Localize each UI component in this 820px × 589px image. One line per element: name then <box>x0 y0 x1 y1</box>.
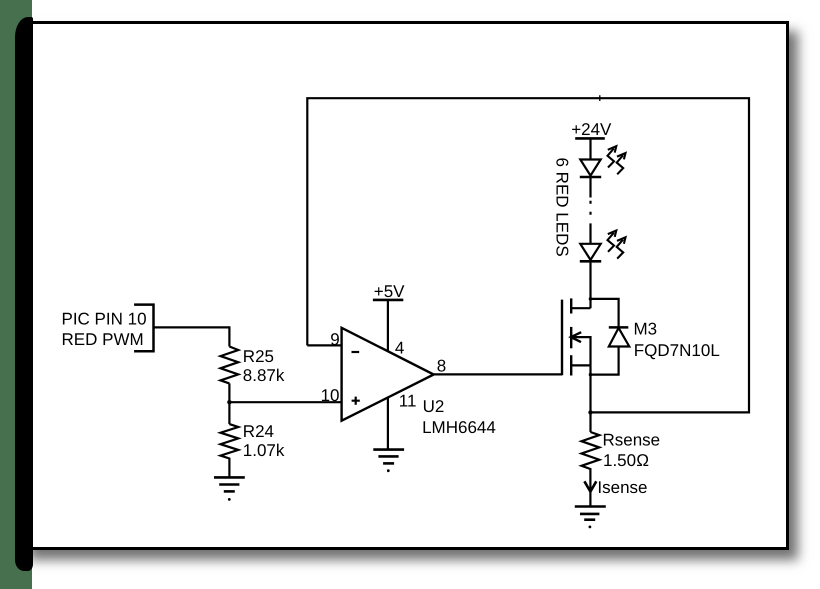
+5V supply <box>374 282 405 301</box>
wire LED2 to MOSFET drain <box>589 261 591 308</box>
LED D1 <box>580 160 600 176</box>
ground (below Rsense) <box>575 507 606 529</box>
svg-text:6 RED LEDS: 6 RED LEDS <box>553 158 572 257</box>
svg-text:4: 4 <box>395 339 404 358</box>
resistor R25 <box>221 347 239 384</box>
svg-text:Isense: Isense <box>597 478 647 497</box>
pin 11 wire <box>387 398 389 450</box>
+24V supply <box>571 120 612 139</box>
svg-text:1.07k: 1.07k <box>243 441 285 460</box>
U2 labels <box>422 397 496 437</box>
tick on feedback wire top <box>599 95 601 101</box>
svg-text:1.50Ω: 1.50Ω <box>603 451 649 470</box>
junction dot at sense node <box>588 410 592 414</box>
svg-text:Rsense: Rsense <box>603 431 661 450</box>
op-amp U2 triangle <box>342 328 434 421</box>
junction dot at diode top <box>589 297 593 301</box>
source connection <box>571 364 590 366</box>
svg-text:LMH6644: LMH6644 <box>422 418 496 437</box>
diode triangle <box>609 328 630 347</box>
node junction dot <box>227 400 231 404</box>
LED D1 light arrows <box>608 146 626 174</box>
input bracket <box>134 305 153 352</box>
wire node to op-amp + input (pin 10) <box>229 401 341 403</box>
Isense current arrow <box>584 481 596 491</box>
drain connection <box>571 307 590 309</box>
transistor M3 (N-MOSFET) <box>562 298 571 375</box>
svg-text:8: 8 <box>437 357 446 376</box>
source wire down <box>589 365 591 432</box>
LED D2 light arrows <box>608 231 626 259</box>
diode cathode bar <box>609 326 629 329</box>
resistor Rsense <box>582 432 600 507</box>
wire input to R25 <box>154 327 230 346</box>
pin 4 supply wire <box>387 300 389 351</box>
svg-text:11: 11 <box>399 392 417 411</box>
svg-text:RED PWM: RED PWM <box>62 330 144 349</box>
pin 8 output wire to gate <box>434 373 562 375</box>
svg-text:+5V: +5V <box>374 282 405 301</box>
svg-text:8.87k: 8.87k <box>243 366 285 385</box>
svg-text:FQD7N10L: FQD7N10L <box>634 341 720 360</box>
svg-text:R24: R24 <box>243 422 274 441</box>
body diode of M3 <box>591 299 619 375</box>
LED D2 <box>580 244 600 260</box>
body arrow wire <box>571 337 591 365</box>
wire R25 to node <box>228 383 230 402</box>
resistor R24 <box>221 424 239 477</box>
green strip background <box>0 0 32 589</box>
channel segment top <box>570 298 572 313</box>
svg-text:R25: R25 <box>243 347 274 366</box>
gate bar <box>561 300 563 376</box>
ground (below R24) <box>214 477 245 500</box>
book gutter black bar <box>15 17 33 571</box>
body arrowhead <box>571 332 581 342</box>
svg-text:PIC PIN 10: PIC PIN 10 <box>62 309 147 328</box>
svg-text:M3: M3 <box>634 319 658 338</box>
wire +24V to LED1 <box>589 138 591 159</box>
dashed wire (omitted LEDs) <box>589 177 591 244</box>
svg-text:+24V: +24V <box>571 120 612 139</box>
svg-text:U2: U2 <box>423 397 445 416</box>
svg-text:9: 9 <box>330 330 339 349</box>
pin 9 wire (inverting input) <box>307 344 341 346</box>
plus sign <box>352 397 360 405</box>
ground (below op-amp pin 11) <box>373 450 404 473</box>
channel segment middle <box>570 327 572 348</box>
svg-text:10: 10 <box>321 386 340 405</box>
junction dot at diode bottom <box>589 373 593 377</box>
wire node to R24 <box>228 402 230 424</box>
feedback loop wire (pin 9 up, across, down to sense node) <box>307 98 749 412</box>
channel segment bottom <box>570 355 572 375</box>
minus sign <box>352 351 360 353</box>
M3 labels <box>634 319 720 359</box>
input label PIC PIN 10 / RED PWM <box>62 309 147 349</box>
